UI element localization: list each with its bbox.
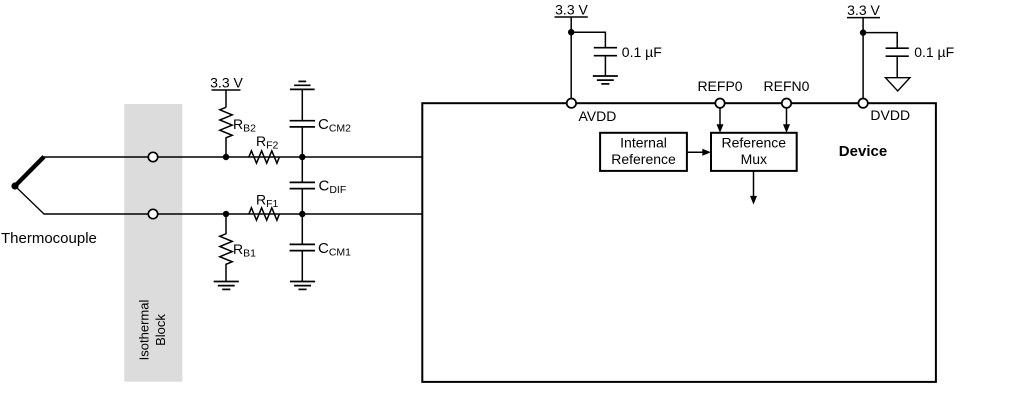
thermocouple leg (thin)	[15, 186, 44, 214]
wire: reference mux to ADC	[750, 171, 757, 205]
svg-text:0.1 µF: 0.1 µF	[622, 44, 662, 60]
thermocouple junction dot	[11, 182, 18, 189]
svg-text:RF1: RF1	[256, 192, 279, 211]
resistor RF2	[249, 151, 280, 163]
svg-text:0.1 µF: 0.1 µF	[914, 44, 954, 60]
svg-text:DVDD: DVDD	[870, 107, 910, 123]
terminal contact bottom	[148, 209, 157, 218]
svg-text:Reference: Reference	[611, 151, 676, 167]
ground below RB1	[214, 282, 239, 290]
capacitor CCM2	[290, 89, 315, 157]
reference mux block	[711, 133, 797, 171]
pin REFN0	[782, 99, 791, 108]
node: RB2/RF2 junction on AIN0 line	[223, 154, 229, 160]
svg-text:REFP0: REFP0	[697, 78, 742, 94]
svg-text:3.3 V: 3.3 V	[555, 1, 588, 17]
wire: REFN0 to reference mux	[783, 108, 790, 133]
supply 3.3V for DVDD	[847, 2, 881, 99]
supply 3.3V for RB2	[210, 75, 243, 108]
node: AVDD supply/cap junction	[568, 29, 574, 35]
svg-text:CCM1: CCM1	[318, 240, 351, 259]
terminal contact top	[148, 152, 157, 161]
resistor RB1	[220, 214, 232, 281]
svg-text:Device: Device	[839, 143, 887, 160]
capacitor CCM1	[290, 214, 315, 282]
node: CDIF/CCM1 junction on AIN1 line	[299, 211, 305, 217]
svg-text:Mux: Mux	[741, 151, 767, 167]
wire: AVDD cap branch	[571, 32, 605, 47]
pin DVDD	[858, 99, 867, 108]
isothermal block shaded region	[124, 104, 182, 382]
device outline box	[422, 103, 936, 382]
svg-text:3.3 V: 3.3 V	[210, 75, 243, 91]
wire: internal reference to reference mux	[687, 149, 711, 156]
svg-text:Thermocouple: Thermocouple	[1, 230, 97, 247]
svg-text:Reference: Reference	[722, 135, 787, 151]
ground below AVDD cap	[593, 76, 618, 84]
thermocouple leg (thick)	[15, 157, 44, 186]
svg-text:Internal: Internal	[620, 135, 667, 151]
ground below CCM1	[290, 282, 315, 290]
pin AVDD	[567, 99, 576, 108]
internal reference block	[600, 133, 687, 171]
capacitor 0.1uF (DVDD)	[886, 48, 909, 77]
ground (chassis triangle) below DVDD cap	[886, 78, 910, 91]
resistor RF1	[249, 208, 280, 220]
svg-text:RF2: RF2	[256, 133, 279, 152]
svg-text:3.3 V: 3.3 V	[847, 2, 880, 18]
supply 3.3V for AVDD	[555, 1, 589, 98]
node: CCM2/CDIF junction on AIN0 line	[299, 154, 305, 160]
wire: bottom lead to AIN1	[44, 213, 423, 215]
capacitor 0.1uF (AVDD)	[594, 48, 617, 76]
svg-text:AVDD: AVDD	[579, 108, 617, 124]
node: RB1/RF1 junction on AIN1 line	[223, 211, 229, 217]
wire: DVDD cap branch	[863, 33, 897, 48]
svg-text:RB2: RB2	[233, 116, 256, 135]
svg-text:REFN0: REFN0	[764, 78, 810, 94]
pin REFP0	[715, 99, 724, 108]
node: DVDD supply/cap junction	[860, 29, 866, 35]
wire: REFP0 to reference mux	[717, 108, 724, 133]
capacitor CDIF	[290, 157, 315, 214]
svg-text:CCM2: CCM2	[318, 116, 351, 135]
resistor RB2	[220, 107, 232, 156]
wire: top lead to AIN0	[44, 156, 423, 158]
svg-text:CDIF: CDIF	[319, 178, 347, 197]
ground (inverted) above CCM2	[290, 81, 315, 89]
svg-text:RB1: RB1	[233, 241, 256, 260]
